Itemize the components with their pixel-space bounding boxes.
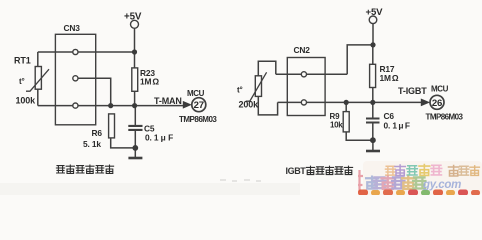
svg-text:t°: t° bbox=[237, 86, 243, 95]
CN3 pin 1 circle bbox=[73, 49, 78, 54]
svg-text:MCU: MCU bbox=[431, 85, 449, 94]
svg-text:C6: C6 bbox=[384, 111, 395, 121]
svg-text:t°: t° bbox=[19, 77, 25, 86]
junction node right ground bbox=[370, 137, 376, 143]
thermistor RT1 body bbox=[35, 67, 41, 90]
resistor R6 body bbox=[109, 114, 115, 138]
MCU pin circle 27 bbox=[192, 98, 206, 112]
junction node R9 top bbox=[344, 100, 349, 105]
wire pin1 row bbox=[276, 73, 347, 75]
wire pin2 row and drop to signal bbox=[75, 78, 110, 105]
thermistor 200k diagonal bbox=[246, 72, 267, 101]
resistor R23 body bbox=[132, 68, 138, 91]
svg-text:+5V: +5V bbox=[124, 12, 142, 23]
MCU pin circle 26 bbox=[430, 95, 444, 109]
svg-text:MCU: MCU bbox=[187, 89, 205, 98]
svg-text:27: 27 bbox=[194, 100, 204, 111]
connector CN3 box bbox=[55, 34, 95, 125]
svg-text:R6: R6 bbox=[92, 128, 103, 138]
wire signal line (pin3 row) bbox=[38, 105, 185, 107]
junction node left rail top bbox=[132, 49, 137, 54]
svg-text:T-MAN: T-MAN bbox=[154, 96, 182, 106]
thermistor RT1 diagonal bbox=[26, 69, 49, 91]
svg-text:26: 26 bbox=[432, 98, 442, 109]
svg-text:1MΩ: 1MΩ bbox=[380, 73, 399, 83]
junction node R6 top bbox=[108, 103, 113, 108]
svg-text:gy.com: gy.com bbox=[422, 179, 461, 191]
wire C6 bottom to ground node bbox=[372, 123, 374, 141]
svg-text:CN3: CN3 bbox=[64, 23, 81, 33]
connector CN2 box bbox=[287, 58, 325, 116]
wire RT1 bottom to signal line bbox=[37, 89, 39, 105]
wire ground drop bbox=[134, 148, 136, 157]
junction node R23/C5 bbox=[132, 103, 137, 108]
capacitor C5 plates bbox=[128, 126, 142, 130]
CN3 pin 2 circle bbox=[73, 76, 78, 81]
svg-text:RT1: RT1 bbox=[14, 56, 31, 66]
junction node right rail top bbox=[370, 42, 375, 47]
svg-text:10k: 10k bbox=[330, 121, 343, 130]
arrow into pin 26 bbox=[421, 99, 430, 107]
wire rail R23 top bbox=[134, 52, 136, 68]
wire pin1 link to rail bbox=[347, 45, 373, 74]
svg-text:5. 1k: 5. 1k bbox=[83, 139, 101, 149]
wire signal line right (pin2 row) bbox=[278, 101, 422, 103]
watermark row 1: colored hanzi bbox=[385, 165, 479, 177]
resistor R17 body bbox=[370, 64, 376, 87]
svg-text:100k: 100k bbox=[16, 96, 37, 106]
+5V terminal circle left bbox=[131, 20, 139, 28]
wire pin1 line from RT1 to rail bbox=[38, 51, 135, 53]
wire C5 top bbox=[134, 106, 136, 126]
ground symbol left bbox=[128, 157, 142, 160]
faint smudge bottom left bbox=[220, 180, 261, 181]
CN3 pin 3 circle bbox=[73, 103, 78, 108]
wire R9 top bbox=[345, 102, 347, 111]
wire rail R17 top bbox=[372, 45, 374, 64]
capacitor C6 plates bbox=[366, 119, 380, 123]
wire C5 bottom to ground node bbox=[134, 130, 136, 148]
thermistor 200k body bbox=[255, 76, 261, 97]
wire thermistor bottom jog bbox=[258, 96, 277, 115]
wire R17 bottom to signal bbox=[372, 88, 374, 103]
junction node R17/C6 bbox=[370, 100, 375, 105]
wire R9 bottom to ground node bbox=[346, 132, 373, 140]
CN2 pin 2 circle bbox=[301, 100, 306, 105]
svg-text:TMP86M03: TMP86M03 bbox=[179, 115, 217, 124]
svg-text:200k: 200k bbox=[239, 100, 260, 110]
ground symbol right bbox=[366, 150, 380, 153]
watermark left red smudge bbox=[358, 170, 363, 192]
watermark row 2: large pale glyphs + url bbox=[366, 177, 425, 190]
svg-text:CN2: CN2 bbox=[294, 45, 311, 55]
+5V terminal circle right bbox=[369, 16, 377, 24]
watermark background wash bbox=[363, 161, 482, 195]
svg-text:1MΩ: 1MΩ bbox=[140, 77, 159, 87]
wire R6 bottom to ground node bbox=[111, 138, 136, 148]
wire R23 bottom to signal bbox=[134, 91, 136, 105]
svg-text:IGBT: IGBT bbox=[286, 166, 307, 176]
wire +5V rail down bbox=[134, 28, 136, 52]
svg-text:TMP86M03: TMP86M03 bbox=[426, 113, 464, 122]
svg-text:T-IGBT: T-IGBT bbox=[398, 86, 427, 96]
wire C6 top bbox=[372, 102, 374, 118]
wire thermistor top jog bbox=[258, 61, 276, 76]
resistor R9 body bbox=[343, 112, 349, 132]
wire +5V rail down right bbox=[372, 24, 374, 45]
svg-text:+5V: +5V bbox=[366, 7, 384, 18]
svg-text:0. 1μF: 0. 1μF bbox=[384, 121, 410, 131]
junction node left ground bbox=[132, 145, 138, 151]
caption: pot temperature detection (hanzi approximations) bbox=[56, 165, 113, 173]
CN2 pin 1 circle bbox=[301, 72, 306, 77]
arrow into pin 27 bbox=[183, 101, 192, 109]
wire RT1 top drop bbox=[37, 52, 39, 67]
wire ground drop right bbox=[372, 140, 374, 150]
watermark bottom blobs bbox=[358, 190, 480, 196]
